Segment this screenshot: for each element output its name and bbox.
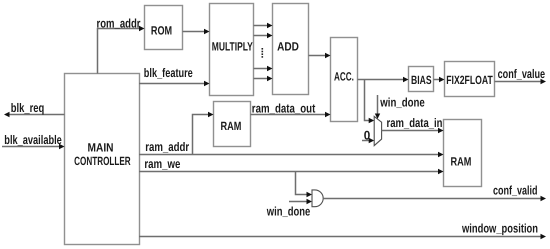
wire ram_data_out (feature RAM to ACC) — [251, 102, 331, 118]
wire window_position (controller to right edge) — [139, 221, 546, 239]
svg-text:ram_we: ram_we — [144, 157, 180, 171]
wire win_done into AND gate input 2 — [266, 199, 312, 219]
block U7 FIX2FLOAT — [445, 62, 495, 97]
wire ram_addr branch up into feature RAM — [193, 112, 214, 155]
svg-text:win_done: win_done — [266, 204, 310, 218]
svg-text:RAM: RAM — [451, 155, 472, 169]
svg-text:ACC.: ACC. — [334, 69, 354, 83]
svg-text:CONTROLLER: CONTROLLER — [74, 154, 131, 168]
svg-text:ROM: ROM — [151, 24, 172, 38]
svg-text:ram_data_in: ram_data_in — [387, 116, 443, 130]
svg-text:ADD: ADD — [277, 39, 299, 53]
wire conf_value (FIX2FLOAT to right edge) — [495, 67, 547, 84]
AND gate G1 — [312, 190, 323, 207]
svg-text:blk_req: blk_req — [11, 101, 45, 115]
svg-text:blk_available: blk_available — [4, 133, 62, 147]
svg-text:conf_valid: conf_valid — [493, 183, 538, 197]
svg-text:blk_feature: blk_feature — [144, 66, 193, 80]
svg-text:window_position: window_position — [461, 221, 538, 235]
block U2 ROM — [145, 6, 183, 50]
wire MULTIPLY to ADD bus line 2 — [254, 33, 273, 38]
constant 0 into mux input 0 — [362, 129, 374, 144]
svg-text:MULTIPLY: MULTIPLY — [212, 39, 253, 53]
block U6 BIAS — [409, 67, 434, 92]
block U9 RAM (result RAM) — [444, 120, 482, 187]
block U3 MULTIPLY — [210, 4, 254, 96]
ellipsis between MULTIPLY and ADD — [262, 48, 264, 58]
svg-text:RAM: RAM — [221, 119, 242, 133]
svg-text:ram_data_out: ram_data_out — [252, 102, 316, 116]
wire ACC to BIAS — [358, 77, 409, 82]
wire conf_valid (gate to right edge) — [323, 183, 546, 201]
block U5 ACC. — [331, 38, 358, 122]
block U8 RAM (feature RAM) — [214, 102, 251, 147]
wire ram_data_in (mux to result RAM) — [382, 116, 444, 133]
wire blk_available (input from left edge) — [2, 133, 65, 149]
wire BIAS to FIX2FLOAT — [434, 77, 445, 82]
wire rom_addr (controller top to ROM) — [97, 16, 145, 73]
wire ACC feedback down to mux input 1 — [365, 80, 375, 124]
svg-text:BIAS: BIAS — [411, 73, 432, 87]
svg-text:win_done: win_done — [380, 96, 425, 110]
wire ADD to ACC — [309, 53, 331, 58]
svg-text:FIX2FLOAT: FIX2FLOAT — [446, 73, 493, 87]
block U1 MAIN CONTROLLER — [65, 74, 140, 245]
svg-text:rom_addr: rom_addr — [97, 16, 141, 30]
wire ram_we (controller to result RAM) — [139, 157, 444, 174]
wire ROM to MULTIPLY — [183, 29, 210, 34]
wire blk_req (output to left edge) — [4, 101, 65, 117]
wire ram_we branch down to AND gate input 1 — [296, 172, 313, 198]
wire ram_addr (controller to result RAM) — [139, 140, 444, 157]
mux M1 (2:1 write-data mux) — [374, 116, 381, 145]
wire MULTIPLY to ADD bus line 4 — [254, 76, 273, 81]
svg-text:ram_addr: ram_addr — [145, 140, 189, 154]
wire win_done select into mux — [375, 95, 425, 119]
wire blk_feature (controller to MULTIPLY) — [139, 66, 210, 86]
block U4 ADD — [273, 4, 309, 95]
wire MULTIPLY to ADD bus line 1 — [254, 23, 273, 28]
svg-text:MAIN: MAIN — [88, 141, 114, 155]
svg-text:conf_value: conf_value — [498, 67, 546, 81]
wire MULTIPLY to ADD bus line 3 — [254, 66, 273, 71]
